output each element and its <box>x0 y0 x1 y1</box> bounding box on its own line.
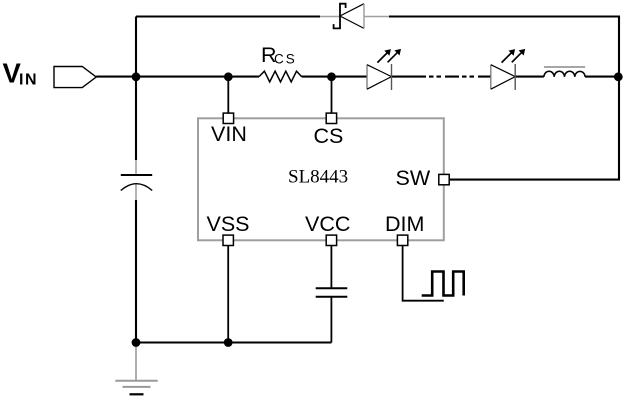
svg-text:VCC: VCC <box>305 212 350 236</box>
svg-text:IN: IN <box>19 71 38 88</box>
svg-text:CS: CS <box>274 52 297 67</box>
svg-text:SL8443: SL8443 <box>288 167 348 188</box>
svg-text:VSS: VSS <box>207 212 250 236</box>
svg-text:VIN: VIN <box>211 122 247 146</box>
svg-text:DIM: DIM <box>385 212 424 236</box>
svg-text:SW: SW <box>396 166 431 190</box>
svg-text:CS: CS <box>314 124 344 148</box>
